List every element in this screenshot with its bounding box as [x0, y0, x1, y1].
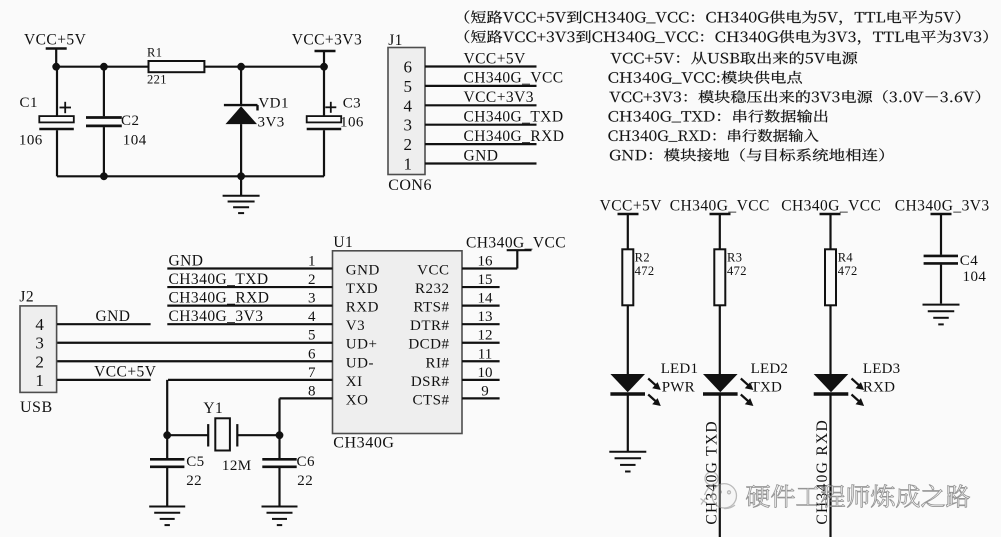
svg-text:VCC+3V3: VCC+3V3 — [292, 32, 362, 49]
svg-text:221: 221 — [147, 73, 167, 87]
svg-text:PWR: PWR — [662, 380, 695, 396]
node junction VCC+3V3 — [320, 63, 328, 71]
resistor R3 472 — [714, 249, 725, 305]
wire J2 pin3 to U1 UD+ — [57, 342, 333, 344]
wire U1 pin 9 — [462, 397, 500, 399]
svg-text:U1: U1 — [333, 234, 353, 251]
wire U1 pin8 XO — [280, 397, 333, 399]
svg-text:CON6: CON6 — [388, 177, 432, 194]
wire U1 pin 11 — [462, 360, 500, 362]
svg-text:LED3: LED3 — [863, 361, 900, 377]
svg-text:11: 11 — [478, 346, 492, 362]
svg-text:16: 16 — [478, 254, 494, 270]
svg-text:LED2: LED2 — [751, 361, 788, 377]
svg-text:1: 1 — [404, 155, 413, 174]
ground (power section) — [240, 176, 242, 195]
svg-text:CH340G RXD: CH340G RXD — [814, 419, 831, 525]
svg-text:XI: XI — [346, 374, 363, 390]
svg-text:TXD: TXD — [346, 281, 378, 297]
svg-text:CH340G_TXD: CH340G_TXD — [169, 271, 269, 288]
wire U1 pin16 VCC to CH340G_VCC — [462, 267, 517, 269]
node junction XI/C5 — [163, 431, 171, 439]
svg-text:2: 2 — [404, 135, 413, 154]
svg-text:5: 5 — [308, 328, 316, 344]
svg-text:472: 472 — [727, 264, 747, 278]
node junction VD1 top — [237, 63, 245, 71]
svg-text:472: 472 — [838, 264, 858, 278]
svg-text:CTS#: CTS# — [412, 392, 449, 408]
svg-text:106: 106 — [340, 115, 364, 131]
svg-text:CH340G_RXD: CH340G_RXD — [464, 128, 565, 145]
svg-text:UD-: UD- — [346, 355, 374, 371]
svg-text:8: 8 — [308, 383, 316, 399]
wire LED1 to ground — [627, 394, 629, 451]
svg-text:1: 1 — [308, 254, 316, 270]
ground (C6) — [262, 506, 298, 508]
watermark logo — [701, 472, 737, 509]
wire U1 pin 13 — [462, 323, 500, 325]
wire R1 to VCC+3V3 node — [203, 66, 324, 68]
svg-text:6: 6 — [308, 346, 316, 362]
svg-text:R2: R2 — [635, 251, 650, 265]
wire U1 pin 10 — [462, 379, 500, 381]
watermark text — [746, 484, 970, 507]
svg-text:GND: GND — [96, 308, 131, 325]
svg-text:DSR#: DSR# — [411, 374, 450, 390]
wire J1 pin 2 net CH340G_RXD — [425, 143, 537, 145]
svg-text:3: 3 — [308, 291, 316, 307]
capacitor C4 104 — [924, 255, 958, 258]
annotation line 4 — [609, 71, 802, 84]
wire J1 pin 6 net VCC+5V — [425, 65, 537, 67]
node junction C2 top — [100, 63, 108, 71]
svg-text:TXD: TXD — [751, 380, 782, 396]
annotation line 5 — [609, 90, 980, 103]
svg-text:22: 22 — [297, 473, 313, 489]
svg-text:R3: R3 — [727, 251, 742, 265]
svg-text:GND: GND — [169, 252, 204, 269]
wire J1 pin 5 net CH340G_VCC — [425, 85, 537, 87]
ground (C4) — [923, 304, 960, 306]
svg-text:CH340G_VCC: CH340G_VCC — [464, 70, 564, 87]
svg-text:104: 104 — [963, 269, 987, 285]
annotation line 2 — [465, 30, 988, 45]
svg-text:V3: V3 — [346, 318, 365, 334]
wire J2 pin1 VCC+5V — [57, 379, 151, 381]
svg-text:DTR#: DTR# — [410, 318, 450, 334]
svg-text:CH340G: CH340G — [333, 435, 394, 452]
svg-text:R232: R232 — [415, 281, 450, 297]
wire crystal right — [237, 434, 279, 436]
wire crystal left — [167, 434, 208, 436]
wire R2 to LED1 — [627, 305, 629, 374]
wire U1 pin 14 — [462, 305, 500, 307]
svg-text:RTS#: RTS# — [413, 300, 449, 316]
svg-text:VCC+5V: VCC+5V — [600, 198, 663, 215]
svg-text:VCC+5V: VCC+5V — [94, 364, 157, 381]
svg-text:9: 9 — [481, 383, 489, 399]
svg-text:15: 15 — [478, 272, 493, 288]
wire U1 pin 12 — [462, 342, 500, 344]
svg-text:UD+: UD+ — [346, 337, 378, 353]
svg-text:USB: USB — [20, 399, 53, 416]
capacitor C1 (electrolytic) — [56, 67, 58, 116]
resistor R2 472 — [622, 249, 633, 305]
resistor R4 472 — [825, 249, 836, 305]
svg-text:472: 472 — [635, 264, 655, 278]
svg-text:CH340G_TXD: CH340G_TXD — [464, 109, 564, 126]
svg-text:CH340G_3V3: CH340G_3V3 — [169, 308, 264, 325]
svg-text:104: 104 — [123, 133, 147, 149]
svg-text:3: 3 — [404, 116, 413, 135]
annotation line 7 — [608, 129, 818, 142]
crystal Y1 — [207, 424, 209, 446]
svg-text:2: 2 — [308, 272, 316, 288]
svg-text:CH340G_3V3: CH340G_3V3 — [895, 198, 990, 215]
wire LED2 to bottom CH340G TXD — [719, 394, 721, 537]
annotation line 3 — [610, 51, 857, 64]
svg-text:CH340G_VCC: CH340G_VCC — [466, 235, 566, 252]
svg-text:14: 14 — [478, 291, 494, 307]
svg-text:LED1: LED1 — [661, 361, 698, 377]
svg-text:C3: C3 — [343, 96, 361, 112]
svg-text:VCC+3V3: VCC+3V3 — [464, 89, 534, 106]
wire U1 pin2 CH340G_TXD — [167, 286, 332, 288]
wire rail1 top — [627, 214, 629, 250]
LED LED3 RXD — [814, 374, 849, 392]
wire J1 pin 4 net VCC+3V3 — [425, 104, 537, 106]
capacitor C2 — [103, 67, 105, 117]
svg-text:4: 4 — [308, 309, 316, 325]
ground (C5) — [149, 506, 185, 508]
wire U1 pin3 CH340G_RXD — [167, 305, 332, 307]
svg-text:4: 4 — [35, 315, 44, 334]
annotation line 6 — [609, 110, 828, 123]
wire U1 pin4 CH340G_3V3 — [167, 323, 332, 325]
wire J2 pin2 to U1 UD- — [57, 360, 333, 362]
ground (LED1) — [609, 451, 646, 453]
svg-text:C5: C5 — [186, 454, 204, 470]
svg-text:GND: GND — [464, 147, 499, 164]
svg-text:RXD: RXD — [863, 380, 895, 396]
wire J1 pin 1 net GND — [425, 162, 537, 164]
svg-text:12: 12 — [478, 328, 493, 344]
LED LED2 TXD — [703, 374, 738, 392]
wire XO stem down — [278, 398, 280, 435]
svg-text:5: 5 — [404, 77, 413, 96]
svg-text:CH340G_VCC: CH340G_VCC — [781, 198, 881, 215]
svg-text:XO: XO — [346, 392, 369, 408]
svg-text:2: 2 — [35, 352, 44, 371]
svg-text:3V3: 3V3 — [258, 115, 285, 131]
svg-text:C4: C4 — [960, 253, 978, 269]
wire VCC+5V flag stem — [55, 49, 57, 67]
svg-text:VCC+5V: VCC+5V — [24, 32, 87, 49]
wire J2 pin4 GND — [57, 323, 151, 325]
wire bottom rail — [57, 175, 324, 177]
svg-text:DCD#: DCD# — [408, 337, 449, 353]
svg-text:GND: GND — [346, 263, 380, 279]
svg-text:RXD: RXD — [346, 300, 379, 316]
svg-text:R4: R4 — [838, 251, 854, 265]
svg-text:10: 10 — [478, 365, 493, 381]
svg-text:Y1: Y1 — [203, 400, 223, 417]
IC U1 CH340G body — [333, 251, 463, 434]
svg-text:RI#: RI# — [426, 355, 450, 371]
capacitor C5 — [166, 435, 168, 458]
wire top rail VCC+5V to R1 — [56, 66, 149, 68]
wire XI stem down — [166, 380, 168, 435]
zener diode VD1 3V3 — [240, 67, 242, 105]
annotation line 1 — [465, 10, 960, 25]
wire U1 pin7 XI — [168, 379, 333, 381]
svg-text:C2: C2 — [121, 113, 139, 129]
svg-text:7: 7 — [308, 365, 316, 381]
capacitor C3 (electrolytic) — [323, 67, 325, 116]
svg-text:106: 106 — [19, 133, 43, 149]
svg-text:VCC+5V: VCC+5V — [464, 50, 527, 67]
svg-text:C6: C6 — [297, 454, 315, 470]
svg-text:J1: J1 — [388, 32, 403, 49]
svg-text:VCC: VCC — [417, 263, 449, 279]
wire U1 pin 15 — [462, 286, 500, 288]
svg-text:CH340G_VCC: CH340G_VCC — [670, 198, 770, 215]
svg-text:3: 3 — [35, 334, 44, 353]
svg-text:12M: 12M — [222, 458, 252, 474]
svg-text:CH340G_RXD: CH340G_RXD — [169, 289, 270, 306]
svg-text:13: 13 — [478, 309, 493, 325]
LED LED1 PWR — [610, 374, 645, 392]
svg-text:C1: C1 — [20, 95, 38, 111]
node junction VCC+5V — [52, 63, 60, 71]
svg-text:R1: R1 — [147, 46, 162, 60]
svg-text:1: 1 — [35, 371, 44, 390]
svg-text:J2: J2 — [19, 289, 34, 306]
wire LED3 to bottom CH340G RXD — [829, 394, 831, 537]
annotation line 8 — [610, 148, 884, 161]
wire U1 pin1 GND — [167, 267, 332, 269]
capacitor C6 — [278, 435, 280, 458]
node junction XO/C6 — [276, 431, 284, 439]
svg-text:22: 22 — [186, 473, 202, 489]
svg-text:VD1: VD1 — [258, 96, 289, 112]
svg-text:4: 4 — [404, 96, 413, 115]
resistor R1 — [149, 61, 205, 72]
wire J1 pin 3 net CH340G_TXD — [425, 124, 537, 126]
svg-text:6: 6 — [404, 58, 413, 77]
